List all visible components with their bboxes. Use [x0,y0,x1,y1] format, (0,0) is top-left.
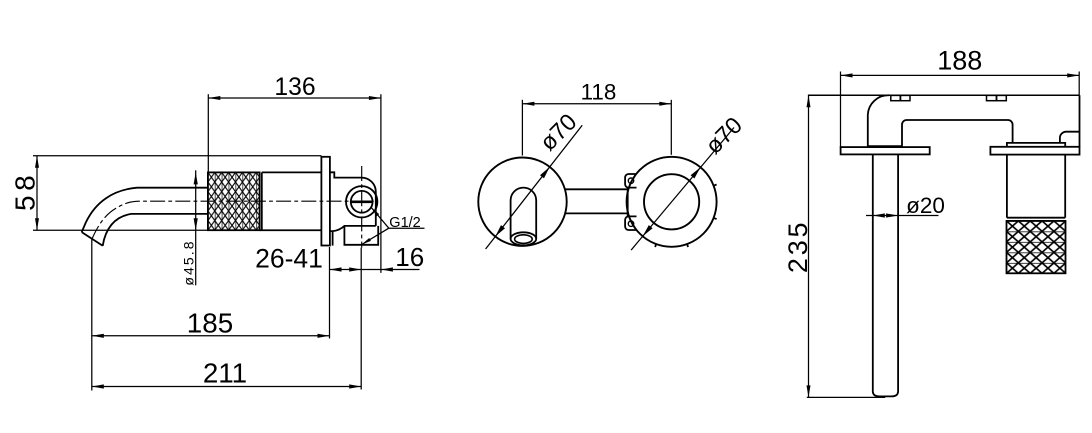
svg-text:ø45.8: ø45.8 [180,239,196,285]
extension line top (58 dim) [33,155,321,157]
dimension 235 [808,95,810,399]
valve cartridge inner circle [351,191,373,213]
mounting bracket edge [627,188,629,217]
svg-text:235: 235 [783,220,813,273]
front view spout escutcheon circle [478,158,566,246]
svg-text:ø70: ø70 [535,109,582,156]
in-wall body outline (top view) [868,95,1013,146]
dimension 185 [91,239,93,390]
svg-text:26-41: 26-41 [255,244,323,274]
in-wall body right step [1060,132,1080,143]
spout outlet tube (side view) [82,188,208,232]
dimension dia45.8 [195,170,197,285]
svg-text:ø20: ø20 [906,193,945,218]
svg-text:188: 188 [937,46,982,76]
knurled grip section (spout body) [208,172,260,230]
in-wall valve body [330,172,376,226]
svg-text:ø70: ø70 [700,112,747,159]
handle escutcheon plate (top view) [990,147,1079,155]
wall trim plate (side view) [321,157,330,246]
svg-text:185: 185 [187,308,233,339]
svg-text:118: 118 [581,80,617,105]
label G1/2 with leaders [371,208,388,229]
svg-text:211: 211 [203,358,247,389]
handle inner circle [644,174,699,229]
svg-text:G1/2: G1/2 [389,215,420,231]
bracket tab lower [625,216,637,230]
mounting clip left [891,95,910,100]
dimension 118 [522,103,671,105]
svg-text:16: 16 [395,242,424,272]
wall line [809,94,1080,96]
connecting body bar [565,188,628,190]
dimension 136 [208,97,381,99]
mounting clip right [987,95,1007,100]
dimension 211 [92,386,361,388]
handle cylinder [1006,155,1008,218]
dimension dia70 (spout escutcheon) [486,125,583,249]
dimension dia70 (handle escutcheon) [631,128,734,251]
spout centerline [92,201,378,239]
valve vertical centerline [361,166,363,248]
dimension 58 [36,156,38,231]
spout outlet ellipses [511,232,537,245]
handle escutcheon outer circle [627,157,717,247]
spout tube front (capsule) [511,188,537,239]
handle collar [1007,143,1065,147]
bracket tab upper [625,174,636,188]
spout trim tube [262,171,322,173]
rim tick marks [714,185,717,186]
spout escutcheon plate (top view) [841,147,930,154]
extension line bottom (58 dim) [33,229,208,231]
dimension 188 [841,74,1080,76]
spout tube (top view) [873,154,898,396]
valve cartridge outer circle [346,186,377,217]
dimension 16 [381,267,393,271]
dimension dia20 [866,215,939,217]
dimension 26-41 [330,269,420,271]
handle knurled grip [1007,221,1066,273]
valve screw slot [351,201,372,204]
spout tip angled cut [82,232,103,246]
svg-text:58: 58 [9,171,40,211]
svg-text:136: 136 [274,74,315,101]
